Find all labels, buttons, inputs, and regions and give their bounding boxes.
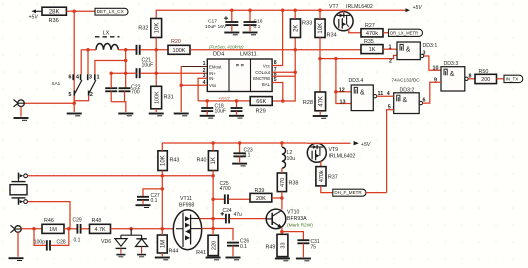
- svg-text:DD4: DD4: [213, 52, 224, 58]
- svg-text:0.1: 0.1: [74, 238, 81, 244]
- svg-text:BFR93A: BFR93A: [287, 216, 307, 222]
- svg-text:R32: R32: [138, 26, 148, 32]
- wire R43 bottom to bias node: [161, 171, 163, 229]
- node bias at C18: [205, 99, 209, 103]
- svg-text:5: 5: [388, 105, 391, 111]
- svg-text:(Mark R2W): (Mark R2W): [287, 222, 313, 228]
- svg-text:IRLML6402: IRLML6402: [329, 153, 356, 159]
- connector crystal bottom: [19, 198, 28, 204]
- svg-text:1M: 1M: [160, 240, 166, 248]
- ground below C27: [136, 205, 151, 207]
- node input/C28 branch: [32, 227, 36, 231]
- svg-text:6: 6: [423, 98, 426, 104]
- logic gate DD3:2 (Schmitt NAND): [394, 88, 420, 114]
- svg-text:100p: 100p: [34, 240, 45, 246]
- wire C21 right to R20/R32 node: [140, 49, 168, 51]
- resistor R31 100K (vertical): [151, 86, 174, 109]
- diode VD6b (clamp, cathode up, anti-parallel): [136, 235, 148, 253]
- wire R34 top to rail: [319, 10, 321, 19]
- svg-text:Vss: Vss: [209, 83, 216, 88]
- svg-text:R29: R29: [256, 109, 266, 115]
- ground below C18: [200, 116, 215, 118]
- resistor R29 66K: [250, 97, 272, 115]
- svg-text:DD3:2: DD3:2: [400, 88, 415, 94]
- svg-text:C17: C17: [208, 19, 217, 25]
- wire R33 top to rail: [294, 10, 296, 19]
- wire VT10 emitter to R49/C31: [281, 228, 283, 235]
- svg-text:COLout: COLout: [255, 70, 271, 75]
- svg-text:VD6: VD6: [101, 239, 111, 245]
- svg-text:R27: R27: [365, 23, 375, 29]
- node emitter: [280, 230, 284, 234]
- svg-text:R38: R38: [289, 181, 299, 187]
- wire DD3:2 pin5 from DH_F_METR net: [387, 105, 394, 193]
- svg-text:5: 5: [68, 92, 71, 98]
- wire coax input to switch: [24, 102, 75, 104]
- wire R20 to comparator output net: [190, 49, 361, 51]
- capacitor C19 (bias bypass): [231, 101, 243, 115]
- resistor R38 470 (vertical): [277, 168, 298, 191]
- node branch to DD3.4 inputs: [334, 57, 338, 61]
- ground below C31: [296, 259, 311, 261]
- wire R40 top: [212, 143, 214, 151]
- svg-text:1M: 1M: [49, 227, 57, 233]
- capacitor C31 75: [297, 239, 319, 257]
- svg-text:R48: R48: [92, 218, 102, 224]
- node R44/R43-column at gate line: [161, 227, 165, 231]
- capacitor C28 100p (parallel R46): [34, 229, 69, 251]
- capacitor C25 4700 (series): [213, 181, 250, 204]
- node tank at IN+ line: [124, 71, 128, 75]
- svg-text:VT7: VT7: [329, 4, 339, 10]
- svg-text:2K: 2K: [294, 25, 300, 32]
- node C23 rail: [238, 141, 242, 145]
- node R38/R39/collector: [280, 196, 284, 200]
- annotation 74AC132/DC: [392, 78, 421, 84]
- node tank branch to switch pin 1: [124, 59, 128, 63]
- wire R32 bottom through nodes to R31: [155, 38, 157, 87]
- wire tank caps bottom rail to ground: [111, 102, 126, 112]
- wire pin3 IN- to bias rail: [198, 78, 207, 101]
- resistor R35 1K: [361, 39, 383, 53]
- svg-text:R34: R34: [327, 33, 337, 39]
- resistor R34 10K (pullup, vertical): [315, 19, 337, 39]
- svg-text:6: 6: [68, 74, 71, 80]
- svg-text:200: 200: [481, 77, 490, 83]
- crystal ZQ1 (quartz resonator): [10, 176, 27, 202]
- svg-text:IN_TX: IN_TX: [506, 76, 519, 81]
- wire pin6 strobe to column: [272, 75, 295, 77]
- wire pin1 EMout to ground column: [181, 67, 207, 113]
- svg-text:R35: R35: [364, 39, 374, 45]
- svg-text:+5V: +5V: [361, 142, 371, 148]
- resistor R46 1M: [42, 218, 64, 233]
- wire input to R46: [21, 228, 42, 230]
- connector crystal top: [19, 173, 28, 179]
- svg-text:220: 220: [211, 241, 217, 250]
- wire tank node to C2: [111, 72, 137, 74]
- svg-text:0.1: 0.1: [244, 153, 251, 159]
- ground below VD6a: [116, 255, 125, 257]
- resistor R27 470k: [361, 23, 383, 37]
- logic gate DD3:3 (Schmitt NAND): [441, 61, 465, 91]
- signal flag DR_LX_METR: [389, 29, 423, 36]
- ground below C26: [226, 258, 241, 260]
- svg-text:R44: R44: [169, 249, 179, 255]
- wire crystal top to oscillator bias net (long): [28, 175, 214, 177]
- capacitor C21 10uF (series, top): [137, 45, 154, 69]
- svg-text:10uF: 10uF: [215, 109, 226, 115]
- svg-text:R31: R31: [164, 95, 174, 101]
- resistor R50 200: [475, 69, 497, 84]
- node R34 rail: [318, 8, 322, 12]
- svg-text:10u: 10u: [287, 156, 296, 162]
- capacitor C16 0.1 (supply): [244, 10, 263, 31]
- resistor R44 1M (vertical): [157, 229, 178, 256]
- resistor R41 220 (vertical): [196, 229, 218, 257]
- svg-text:+Vcc/2: +Vcc/2: [218, 97, 231, 101]
- wire R39 to collector node: [272, 197, 282, 199]
- signal flag DET_LX_CX: [95, 8, 128, 15]
- svg-text:+5V: +5V: [29, 15, 39, 21]
- ground below VD6b: [137, 255, 146, 257]
- node L2 rail: [280, 141, 284, 145]
- wire branch down to DD3.4 pins 12/13: [336, 59, 351, 104]
- svg-text:R50: R50: [479, 69, 489, 75]
- wire R50 to flag: [497, 78, 505, 80]
- svg-text:R41: R41: [196, 250, 206, 256]
- svg-text:2: 2: [389, 59, 392, 65]
- wire drop from L1-left node to switch pin 3: [87, 50, 89, 75]
- ground below C23: [232, 164, 247, 166]
- wire DD3:2 output to DD3:3 pin9: [419, 78, 441, 105]
- svg-text:66K: 66K: [256, 99, 266, 105]
- svg-text:C16: C16: [254, 19, 263, 25]
- svg-text:10uF: 10uF: [142, 63, 154, 69]
- capacitor C17 10uF 16V (supply): [205, 10, 238, 31]
- svg-text:1: 1: [97, 74, 100, 80]
- node R32 column at IN+ line: [154, 71, 158, 75]
- node C21/R32/R20: [154, 48, 158, 52]
- ground below switch common: [67, 114, 82, 116]
- capacitor C22a (tank, parallel): [105, 73, 117, 102]
- wire R40 bottom column: [212, 171, 214, 229]
- svg-text:11: 11: [378, 91, 384, 97]
- wire R37 to flag: [321, 186, 333, 193]
- ground below R49: [275, 259, 290, 261]
- svg-text:10K: 10K: [154, 23, 160, 34]
- svg-text:C29: C29: [73, 218, 82, 224]
- power +5V arrow (VT9): [354, 141, 371, 148]
- svg-text:1: 1: [389, 45, 392, 51]
- svg-text:R37: R37: [328, 175, 338, 181]
- svg-text:DH_F_METR: DH_F_METR: [334, 190, 361, 195]
- wire VT9 source to +5V: [307, 142, 351, 144]
- wire VT11 drain to column: [200, 218, 214, 220]
- resistor R28 47K (vertical): [303, 92, 326, 111]
- wire pin7 COLout to pullup column: [272, 71, 295, 73]
- connector XW2 audio/input: [11, 225, 22, 232]
- svg-text:4.7K: 4.7K: [94, 227, 105, 233]
- capacitor C26 0.1 (source bypass): [227, 239, 249, 257]
- svg-text:33: 33: [281, 242, 287, 248]
- ground below C16: [243, 33, 258, 35]
- svg-text:DR_LX_METR: DR_LX_METR: [390, 30, 418, 35]
- svg-text:&: &: [403, 97, 408, 104]
- ground below R44: [155, 258, 170, 260]
- svg-text:10uF 16V: 10uF 16V: [205, 24, 227, 30]
- svg-text:DD3:3: DD3:3: [444, 61, 459, 67]
- annotation (ForS90, 420kHz): [209, 45, 244, 50]
- svg-text:0.1: 0.1: [240, 244, 247, 250]
- logic gate DD3:1 (74AC132 Schmitt NAND): [397, 42, 437, 60]
- capacitor C29 0.1 (series): [73, 218, 82, 244]
- svg-text:DD3.4: DD3.4: [349, 78, 364, 84]
- svg-text:LX: LX: [103, 31, 110, 37]
- ground at coax input: [14, 118, 29, 120]
- node pin5 at R29 line: [281, 99, 285, 103]
- svg-text:0.1: 0.1: [151, 198, 158, 204]
- resistor R33 2K (pullup, vertical): [290, 19, 312, 38]
- svg-text:&: &: [360, 89, 365, 96]
- wire R46 to C29: [64, 228, 77, 230]
- svg-text:BNСTRB: BNСTRB: [253, 76, 270, 81]
- svg-text:47u: 47u: [234, 212, 243, 218]
- wire oscillator supply rail: [162, 142, 306, 144]
- svg-text:470: 470: [280, 178, 286, 187]
- svg-text:EMout: EMout: [209, 64, 222, 69]
- svg-text:2: 2: [90, 92, 93, 98]
- svg-text:100K: 100K: [172, 48, 185, 54]
- svg-text:R33: R33: [302, 21, 312, 27]
- resistor R36 28K: [42, 7, 66, 24]
- switch SA1 contacts: [52, 74, 100, 98]
- svg-text:470k: 470k: [366, 31, 378, 37]
- svg-text:R36: R36: [49, 18, 59, 24]
- wire DD3:3 output to R50: [465, 74, 475, 81]
- node bias at C19: [235, 99, 239, 103]
- resistor R40 1K (vertical): [197, 151, 218, 171]
- signal flag DH_F_METR: [333, 189, 366, 196]
- wire C29 to R48: [81, 228, 90, 230]
- svg-text:74AC132/DC: 74AC132/DC: [392, 78, 421, 84]
- wire L1 right lead to tank node: [118, 49, 136, 51]
- wire pin5 BAL down: [272, 83, 283, 102]
- svg-text:= =: = =: [236, 63, 245, 69]
- svg-text:R43: R43: [170, 158, 180, 164]
- ground below C17: [224, 33, 239, 35]
- capacitor C18 10uF (bias bypass): [201, 101, 226, 115]
- svg-text:75: 75: [311, 244, 317, 250]
- svg-text:+5V: +5V: [413, 5, 423, 11]
- resistor R43 10K (vertical): [158, 151, 179, 171]
- wire R28 to ground: [319, 111, 321, 115]
- svg-text:47K: 47K: [318, 96, 324, 107]
- node C17 at rail: [230, 8, 234, 12]
- power +5V arrow (right, top rail): [406, 5, 423, 12]
- wire R31 to ground: [155, 109, 157, 112]
- node pin7 at column: [293, 71, 297, 75]
- svg-text:(ForSeo, 420kHz): (ForSeo, 420kHz): [209, 45, 244, 50]
- svg-text:10: 10: [433, 66, 439, 72]
- node R43/C27: [161, 187, 165, 191]
- capacitor C24 47u (series, polarized): [213, 208, 266, 223]
- svg-text:R40: R40: [197, 158, 207, 164]
- wire switch commons to bottom rail: [74, 96, 88, 101]
- svg-text:1K: 1K: [211, 157, 217, 164]
- node R40 at crystal net: [211, 174, 215, 178]
- node tank top (L1 right / C21): [124, 48, 128, 52]
- svg-text:10K: 10K: [318, 23, 324, 34]
- wire R35 to DD3:1 pin1: [383, 45, 397, 51]
- svg-text:1K: 1K: [369, 47, 376, 53]
- ground below R31: [149, 114, 164, 116]
- svg-text:Vcc: Vcc: [263, 63, 271, 68]
- resistor R37 470k (vertical): [316, 167, 338, 186]
- wire tank vertical column: [125, 50, 127, 88]
- diode VD6a (clamp, cathode down): [101, 229, 142, 254]
- wire connector shield to ground: [20, 107, 22, 117]
- svg-text:R39: R39: [255, 188, 265, 194]
- svg-text:BAL: BAL: [262, 82, 271, 87]
- svg-text:R20: R20: [171, 39, 181, 45]
- svg-text:13: 13: [340, 99, 346, 105]
- svg-text:12: 12: [339, 87, 345, 93]
- wire bias rail +Vcc/2: [198, 100, 250, 102]
- ground below C19: [229, 116, 244, 118]
- node R43 at crystal net: [161, 174, 165, 178]
- wire R38 bottom to VT10 collector: [281, 192, 283, 210]
- wire pin8 Vcc riser to +5V rail: [272, 10, 283, 65]
- wire VT9 gate to R37: [320, 161, 322, 167]
- svg-text:&: &: [406, 46, 411, 53]
- svg-text:3: 3: [89, 74, 92, 80]
- node R33 rail: [293, 8, 297, 12]
- wire R48 to VT11 gate: [111, 228, 174, 230]
- svg-text:SA1: SA1: [52, 81, 61, 86]
- node Vcc riser at rail: [281, 8, 285, 12]
- ground below tank caps: [118, 114, 133, 116]
- svg-text:&: &: [450, 71, 455, 78]
- inductor L1 (search coil) with shield dashes: [95, 31, 120, 50]
- wire R43 top to rail: [161, 143, 163, 151]
- signal flag IN_TX: [504, 75, 523, 82]
- svg-text:R49: R49: [266, 245, 276, 251]
- svg-text:9: 9: [434, 78, 437, 84]
- wire gate-net to DD3:1 pin2: [320, 55, 397, 64]
- ground below R41: [206, 258, 221, 260]
- node C28/crystal riser: [67, 227, 71, 231]
- wire flag to DD3:2 pin5 riser: [366, 192, 387, 194]
- node R40 rail: [211, 141, 215, 145]
- svg-text:VT9: VT9: [329, 147, 339, 153]
- svg-text:8: 8: [469, 74, 472, 80]
- capacitor C2 coupling to IN+ (lower): [131, 68, 141, 95]
- resistor R39 20K: [250, 188, 272, 202]
- transistor VT7 IRLML6402 (P-MOSFET): [329, 4, 373, 31]
- transistor VT9 IRLML6402 (P-MOSFET): [307, 143, 355, 162]
- wire R36 to node and DET_LX_CX flag: [66, 10, 95, 12]
- resistor R49 33 (vertical): [266, 234, 288, 256]
- svg-text:VT10: VT10: [287, 210, 300, 216]
- svg-text:R28: R28: [303, 100, 313, 106]
- ground at input connector: [9, 258, 24, 260]
- svg-text:C24: C24: [223, 208, 232, 214]
- svg-text:VT11: VT11: [180, 196, 192, 202]
- node input at switch column: [72, 101, 76, 105]
- wire output pullup column R33-down to R29: [272, 38, 295, 102]
- node C22a top: [109, 71, 113, 75]
- svg-text:100K: 100K: [154, 91, 160, 104]
- logic gate DD3.4 (Schmitt NAND): [339, 78, 374, 111]
- node R34/R28/gate-input net: [318, 57, 322, 61]
- wire C2 to LM311 pin2 IN+: [140, 72, 207, 74]
- svg-text:R46: R46: [44, 218, 54, 224]
- wire DD3:1 output to DD3:3 pin10: [420, 54, 441, 71]
- svg-text:IRLML6402: IRLML6402: [346, 4, 373, 10]
- wire emitter branch to C31: [282, 232, 304, 240]
- node DD3.4 pin12 tap: [334, 90, 338, 94]
- node column at output net: [293, 48, 297, 52]
- wire L1 left lead to switch drops: [81, 50, 96, 75]
- node C16 at rail: [248, 8, 252, 12]
- svg-text:4: 4: [387, 91, 390, 97]
- node at R36 output: [72, 10, 76, 14]
- svg-text:LM311: LM311: [240, 52, 257, 58]
- node L1 left: [86, 48, 90, 52]
- annotation +Vcc/2: [218, 97, 231, 101]
- transistor VT10 BFR93A (NPN): [266, 209, 313, 229]
- op-amp/comparator DD4 LM311: [203, 52, 277, 92]
- node pins 1-4 ground column: [179, 84, 183, 88]
- wire DD3.4 output to DD3:2 pin4: [373, 91, 393, 98]
- svg-text:C28: C28: [57, 240, 66, 246]
- inductor L2 10u (vertical): [282, 143, 295, 168]
- node column at C24: [211, 217, 215, 221]
- wire VT7 gate to R27: [349, 29, 361, 33]
- capacitor C22b (tank, parallel): [119, 88, 131, 102]
- node VD6 tap: [129, 227, 133, 231]
- node column at C25: [211, 197, 215, 201]
- svg-text:0.1: 0.1: [254, 24, 261, 30]
- node source at R41: [211, 227, 215, 231]
- power +5V arrow (left, feeding R36): [29, 9, 43, 20]
- capacitor C27 0.1 (bias): [137, 189, 162, 204]
- svg-text:470k: 470k: [319, 170, 325, 182]
- wire to DD3.4 pin12: [336, 91, 351, 93]
- wire R27 to flag: [383, 32, 389, 34]
- wire pin4 Vss to ground column: [181, 84, 207, 86]
- wire input connector down to ground: [17, 232, 19, 256]
- svg-text:700: 700: [131, 89, 140, 95]
- svg-text:BF998: BF998: [179, 202, 194, 208]
- ground below LM311: [174, 114, 189, 116]
- wire branch to switch pin 1: [95, 61, 126, 75]
- wire long vertical from R36 node down to switch/ground: [73, 11, 75, 112]
- svg-text:20K: 20K: [256, 196, 266, 202]
- svg-text:28K: 28K: [49, 9, 60, 15]
- ground below R28: [313, 116, 328, 118]
- svg-text:4700: 4700: [220, 186, 231, 192]
- resistor R48 4.7K: [90, 218, 111, 233]
- svg-text:DET_LX_CX: DET_LX_CX: [97, 9, 124, 14]
- svg-text:DD3:1: DD3:1: [423, 43, 438, 49]
- transistor VT11 BF998 (dual-gate MOSFET): [173, 196, 201, 250]
- capacitor C23 0.1 (supply bypass): [233, 143, 252, 162]
- wire R34 bottom to R28 and gate net: [319, 38, 321, 93]
- svg-text:IN-: IN-: [209, 76, 215, 81]
- resistor R20 100K (feedback): [168, 39, 190, 54]
